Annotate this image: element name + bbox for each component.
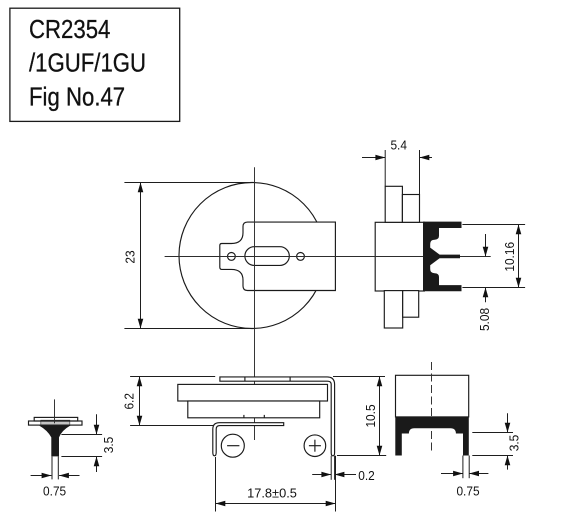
svg-text:6.2: 6.2	[122, 393, 137, 410]
svg-text:3.5: 3.5	[102, 437, 117, 454]
svg-text:23: 23	[123, 250, 138, 263]
svg-text:10.16: 10.16	[502, 242, 517, 272]
svg-text:/1GUF/1GU: /1GUF/1GU	[29, 49, 146, 78]
svg-text:5.08: 5.08	[477, 308, 492, 331]
svg-text:17.8±0.5: 17.8±0.5	[247, 485, 297, 500]
svg-text:0.75: 0.75	[456, 484, 479, 499]
svg-text:CR2354: CR2354	[29, 15, 110, 44]
svg-text:Fig No.47: Fig No.47	[29, 83, 125, 112]
svg-text:5.4: 5.4	[390, 138, 407, 153]
svg-text:3.5: 3.5	[507, 435, 522, 452]
svg-text:0.75: 0.75	[43, 484, 66, 499]
svg-text:10.5: 10.5	[363, 404, 378, 427]
svg-text:0.2: 0.2	[358, 469, 375, 484]
